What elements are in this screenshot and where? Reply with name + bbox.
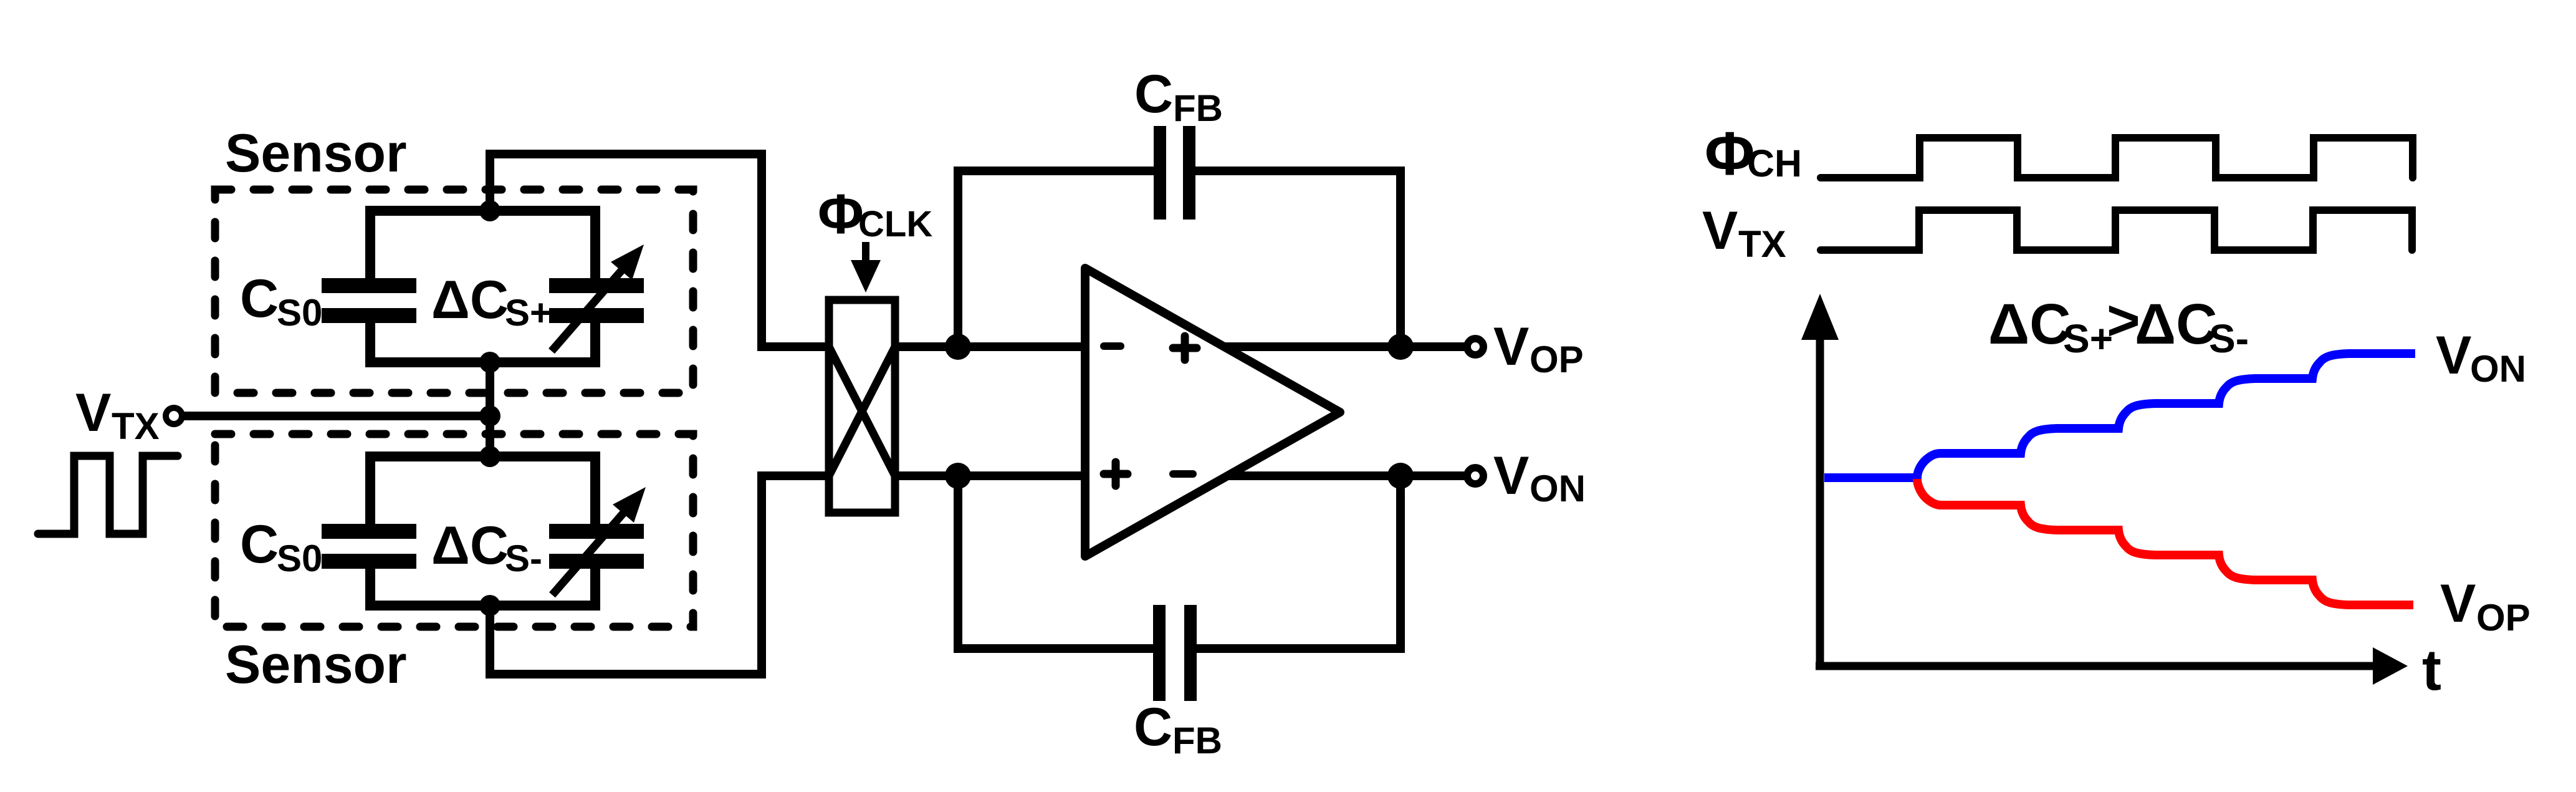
wire bottom sensor loop <box>370 456 595 606</box>
curve VOP (red) <box>1917 479 2413 605</box>
waveform PhiCH <box>1821 138 2413 178</box>
terminal VTX <box>166 408 182 424</box>
node output bottom <box>1387 463 1414 489</box>
svg-text:S+: S+ <box>2063 316 2113 361</box>
terminal VON <box>1467 468 1483 484</box>
svg-text:OP: OP <box>2476 597 2531 639</box>
svg-text:TX: TX <box>1738 223 1786 265</box>
terminal VOP <box>1467 339 1483 355</box>
svg-text:S0: S0 <box>277 538 322 579</box>
svg-text:V: V <box>1493 317 1529 377</box>
svg-text:ΔC: ΔC <box>1988 292 2071 356</box>
svg-text:C: C <box>240 514 279 574</box>
capacitor dCS- plates <box>549 524 644 539</box>
node output top <box>1387 334 1414 360</box>
chopper box <box>829 300 895 513</box>
op-amp U1 <box>1085 268 1340 556</box>
capacitor CFB top <box>958 171 1401 347</box>
wire VTX <box>182 412 490 420</box>
svg-text:V: V <box>1702 201 1738 261</box>
svg-text:CH: CH <box>1747 142 1802 185</box>
svg-text:TX: TX <box>112 405 160 447</box>
node bottom sensor upper <box>479 446 500 467</box>
dashed box sensor bottom <box>215 434 693 627</box>
op-amp plus top <box>1173 336 1197 360</box>
node VTX junction <box>479 405 500 427</box>
node bottom input <box>945 463 971 489</box>
svg-text:CLK: CLK <box>858 204 932 244</box>
svg-text:S0: S0 <box>277 292 322 334</box>
svg-text:S+: S+ <box>505 292 552 334</box>
node top sensor lower <box>479 352 500 373</box>
svg-text:C: C <box>1134 697 1172 757</box>
wire top sensor loop <box>370 211 595 362</box>
svg-text:ΔC: ΔC <box>431 270 509 330</box>
node top input <box>945 334 971 360</box>
dashed box sensor top <box>215 190 693 393</box>
op-amp minus bottom <box>1173 470 1193 478</box>
capacitor CFB bottom <box>958 476 1401 649</box>
VTX pulse waveform <box>38 456 178 534</box>
svg-text:Sensor: Sensor <box>225 123 407 183</box>
y axis <box>1816 334 1824 666</box>
x axis <box>1816 662 2378 670</box>
svg-text:ΔC: ΔC <box>431 516 509 576</box>
svg-text:S-: S- <box>505 538 542 579</box>
wire bottom sensor to chopper <box>490 476 829 674</box>
op-amp minus top <box>1104 342 1121 350</box>
wire common vertical <box>486 362 494 456</box>
chopper cross wires <box>829 347 895 476</box>
curve VON (blue) <box>1824 354 2415 478</box>
op-amp plus bottom <box>1104 462 1128 486</box>
arrow PhiCLK down <box>862 242 869 269</box>
svg-text:V: V <box>75 383 111 443</box>
svg-text:C: C <box>1134 64 1173 124</box>
capacitor CS0 bottom plates <box>322 524 416 539</box>
capacitor dCS+ plates <box>549 278 644 293</box>
wire chopper to op-amp top <box>895 342 1085 351</box>
svg-text:V: V <box>1493 446 1529 506</box>
svg-text:FB: FB <box>1172 720 1222 761</box>
waveform VTX right <box>1821 210 2412 250</box>
svg-text:V: V <box>2436 326 2471 385</box>
svg-text:FB: FB <box>1173 87 1223 129</box>
wire output bottom <box>1227 471 1464 480</box>
svg-text:t: t <box>2422 637 2441 702</box>
svg-text:C: C <box>240 269 279 329</box>
node bottom sensor lower <box>479 595 500 616</box>
wire top sensor to chopper <box>490 154 829 347</box>
node top sensor upper <box>479 200 500 221</box>
svg-text:Sensor: Sensor <box>225 635 407 695</box>
arrow through dCS+ <box>552 261 630 351</box>
arrow through dCS- <box>552 504 631 595</box>
svg-text:Φ: Φ <box>818 183 864 246</box>
svg-text:OP: OP <box>1530 339 1584 380</box>
svg-text:ΔC: ΔC <box>2135 292 2218 356</box>
svg-text:S-: S- <box>2209 316 2249 361</box>
svg-text:V: V <box>2440 574 2476 634</box>
wire output top <box>1223 342 1464 351</box>
svg-text:ON: ON <box>1530 468 1586 509</box>
svg-text:ON: ON <box>2470 348 2526 390</box>
capacitor CS0 top plates <box>322 278 416 293</box>
wire chopper to op-amp bottom <box>895 471 1085 480</box>
